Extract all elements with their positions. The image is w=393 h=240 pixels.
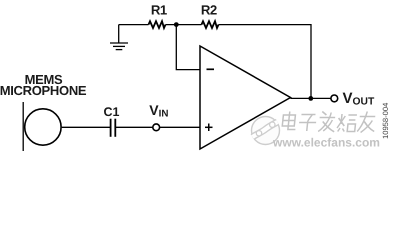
svg-text:www.elecfans.com: www.elecfans.com: [272, 135, 380, 149]
wire VIN to op-amp noninverting input: [160, 126, 200, 128]
node VOUT open circle: [331, 95, 338, 102]
node VIN open circle: [153, 124, 160, 131]
wire mic to C1: [62, 126, 111, 128]
watermark logo circle: [252, 117, 280, 145]
resistor R1: [149, 21, 166, 28]
minus sign: [207, 68, 215, 70]
svg-text:10958-004: 10958-004: [381, 103, 390, 139]
capacitor C1: [111, 119, 116, 137]
wire R2 to right corner, down to output: [219, 25, 312, 99]
wire ground to R1: [119, 24, 149, 26]
node junction dot top: [174, 22, 179, 27]
plus sign: [205, 124, 213, 132]
MEMS microphone symbol: [23, 102, 61, 151]
svg-text:C1: C1: [104, 105, 120, 119]
feedback wire from node down to op-amp inverting input: [176, 25, 200, 70]
op-amp U1 triangle: [200, 46, 291, 149]
svg-text:MICROPHONE: MICROPHONE: [0, 83, 87, 98]
ground: [110, 25, 128, 50]
wire R1 to R2: [166, 24, 202, 26]
svg-text:R1: R1: [151, 2, 167, 17]
wire C1 to VIN node: [115, 126, 153, 128]
watermark text 电子发烧友 (pseudo-glyphs): [282, 112, 377, 133]
node junction dot output: [308, 96, 313, 101]
output wire from op-amp apex to VOUT: [291, 97, 332, 99]
resistor R2: [202, 21, 219, 28]
svg-text:R2: R2: [201, 2, 217, 17]
